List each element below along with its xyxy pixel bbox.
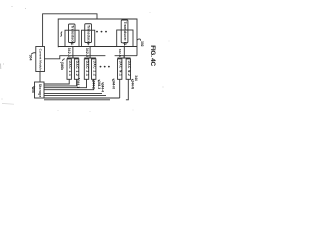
wire module to storage [39, 72, 41, 83]
DAC 2.2 box [92, 59, 96, 79]
transducer cell EN outer [117, 30, 133, 47]
tick DAC11 [68, 57, 70, 60]
tick DAC21 [86, 57, 88, 60]
storage box [35, 82, 45, 98]
leader 344-4 [102, 83, 104, 84]
leader 344-N1 [112, 79, 114, 80]
svg-text:Transducer: Transducer [87, 25, 91, 45]
leader 302 [137, 39, 141, 41]
transducer cell E2 inner [85, 24, 92, 43]
transducer cell E1 outer [65, 30, 79, 46]
tick DACN1 [119, 57, 121, 60]
DAC 1.2 box [74, 59, 78, 79]
leader 344-1 [78, 79, 80, 80]
bus line 7 to DAC N.1 [44, 79, 120, 98]
tick DAC12 [76, 57, 78, 60]
svg-text:DAC 1.1: DAC 1.1 [68, 61, 72, 77]
bus line 5 [44, 93, 102, 95]
svg-text:344-2: 344-2 [92, 81, 96, 89]
bus wire DAC 1.1 [44, 79, 69, 84]
array block outline [58, 19, 137, 56]
bus line 8 [44, 99, 110, 101]
svg-text:344-1: 344-1 [76, 80, 80, 88]
dots between DACs [100, 66, 110, 68]
scan smudge left edge [0, 64, 2, 70]
riser wire cell E2 [89, 47, 91, 59]
bus wire DAC 1.2 [44, 79, 77, 86]
svg-text:FIG. 4C: FIG. 4C [149, 45, 156, 66]
svg-text:Current Module: Current Module [39, 49, 43, 71]
scan speckles [2, 6, 170, 112]
svg-text:304: 304 [29, 55, 33, 61]
svg-text:Storage: Storage [38, 84, 42, 98]
svg-text:DAC 2.2: DAC 2.2 [92, 61, 96, 77]
transducer cell E1 inner [69, 24, 76, 43]
svg-text:DAC 1.2: DAC 1.2 [75, 61, 79, 77]
svg-text:DAC N.1: DAC N.1 [118, 61, 122, 77]
bus wire DAC 2.2 [44, 79, 94, 89]
cell EN leader curl [124, 43, 125, 45]
bus wire DAC 2.1 [44, 79, 87, 87]
svg-text:344-N: 344-N [111, 80, 115, 89]
riser wire cell EN [123, 47, 125, 59]
tick DACN2 [127, 57, 129, 60]
wire outer enclosure top-left [43, 14, 97, 47]
svg-text:342-2: 342-2 [85, 48, 89, 58]
svg-text:344-4: 344-4 [101, 84, 105, 92]
svg-text:DAC 2.1: DAC 2.1 [85, 61, 89, 77]
DAC 2.1 box [84, 59, 88, 79]
transducer cell EN inner [121, 20, 128, 43]
bus line 6 [44, 95, 106, 97]
tick DAC22 [93, 57, 95, 60]
pair bracket 2 [84, 56, 96, 58]
pair bracket 1 [67, 56, 79, 58]
pair bracket N [118, 56, 131, 58]
DAC N.2 box [126, 59, 130, 79]
riser wire cell E1 [72, 47, 74, 59]
transducer cell E2 outer [82, 30, 95, 46]
leader 344-N2 [131, 79, 133, 80]
wire DAC N.2 [126, 79, 128, 100]
leader 344-3 [98, 80, 100, 81]
svg-text:(340b: (340b [60, 62, 64, 70]
leader 304 [31, 53, 36, 55]
control bus main line [45, 56, 138, 59]
svg-text:344: 344 [134, 75, 138, 81]
scan smudge bottom left [2, 103, 14, 106]
small mark left of cell E1 [61, 32, 63, 37]
DAC N.1 box [118, 59, 122, 79]
dots between cells [96, 31, 107, 33]
svg-text:302: 302 [140, 41, 144, 47]
svg-text:344-3: 344-3 [97, 81, 101, 89]
module box [36, 47, 45, 72]
cell E1 leader curl [70, 43, 72, 46]
cell E2 leader curl [87, 43, 89, 46]
svg-text:Transducer El: Transducer El [123, 22, 127, 46]
svg-text:342-N: 342-N [118, 49, 122, 57]
svg-text:306: 306 [31, 87, 35, 93]
svg-text:Transducer: Transducer [70, 25, 74, 45]
DAC 1.1 box [67, 59, 71, 79]
leader 344-2 [93, 80, 95, 81]
svg-text:342-1: 342-1 [67, 48, 71, 58]
svg-text:344-N: 344-N [130, 80, 134, 89]
leader 340b curl [63, 59, 65, 61]
leader 306 [32, 87, 35, 88]
svg-text:DAC N.2: DAC N.2 [127, 61, 131, 77]
